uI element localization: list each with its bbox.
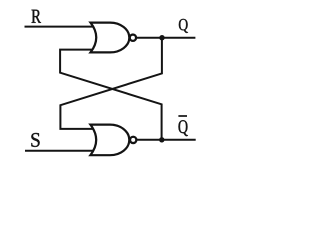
wire R input — [25, 26, 99, 28]
label R — [32, 10, 42, 23]
label Q-bar — [179, 120, 188, 136]
NOR gate U2 output bubble — [130, 137, 136, 143]
wire S input — [25, 150, 98, 152]
junction node Q-bar — [159, 137, 164, 142]
wire Q output — [136, 37, 195, 39]
wire feedback Q to bottom gate input (cross down-left) — [60, 38, 161, 129]
label Q — [179, 19, 188, 33]
junction node Q — [159, 35, 164, 40]
label S — [31, 133, 39, 147]
wire Q-bar output — [136, 139, 196, 141]
NOR gate U1 output bubble — [130, 35, 136, 41]
NOR gate U1 (top) body — [91, 23, 130, 53]
NOR gate U2 (bottom) body — [90, 125, 129, 156]
overline of Q-bar — [178, 115, 187, 117]
wire feedback Q-bar to top gate input (lower input, cross down-right) — [60, 50, 162, 140]
